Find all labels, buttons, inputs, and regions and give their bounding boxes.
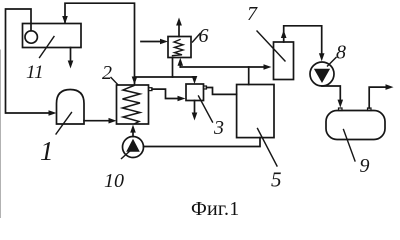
wire: heat exchanger 2 outlet to valve 3: [152, 89, 178, 98]
arrowhead into column 7 left: [264, 64, 272, 70]
distribution bus y77 from exchanger riser to valve 3: [135, 77, 195, 79]
arrowhead into heat exchanger 2 left: [109, 118, 117, 124]
slash leader of label 11: [40, 37, 55, 58]
svg-text:Фиг.1: Фиг.1: [191, 198, 239, 218]
slash leader of label 1: [56, 113, 72, 135]
wire: top bus from heat exchanger 2 to apparatus 11: [65, 3, 135, 84]
wire: bus drop into column 5 top: [248, 67, 250, 85]
heat exchanger 2 body: [117, 85, 149, 124]
vent arrow up from condenser 6: [178, 24, 180, 37]
slash leader of label 9: [344, 130, 356, 162]
wire: separator 1 to heat exchanger 2: [84, 120, 111, 122]
wire: pump 8 to vessel 9: [322, 86, 340, 101]
slash leader of label 2: [111, 78, 118, 85]
circle inside apparatus 11: [25, 31, 37, 43]
vessel 9 body: [326, 111, 385, 140]
apparatus 11 body: [23, 24, 82, 48]
svg-text:2: 2: [102, 62, 112, 84]
inlet nub of vessel 9: [339, 108, 343, 111]
arrowhead up above column 7: [281, 30, 287, 38]
slash leader of label 8: [328, 58, 337, 67]
svg-text:7: 7: [247, 3, 258, 25]
svg-text:3: 3: [213, 117, 224, 139]
wire: bus up into condenser 6 bottom: [179, 63, 181, 67]
arrowhead down into heat exchanger 2 top: [132, 77, 138, 85]
svg-text:8: 8: [336, 42, 346, 64]
slash leader of label 7: [257, 31, 285, 61]
slash leader of label 6: [193, 34, 201, 43]
svg-text:11: 11: [26, 62, 44, 83]
vent arrow from apparatus 11 bottom: [70, 48, 72, 63]
wire: column 7 top to pump 8: [284, 26, 322, 55]
arrowhead into separator 1 left: [49, 110, 57, 116]
svg-text:10: 10: [104, 170, 124, 192]
vapour bus y67 from column 5 to condenser 6 and column 7: [180, 66, 266, 68]
separator 1 dome body: [57, 90, 85, 125]
wire: pump 10 up into heat exchanger 2: [132, 130, 134, 137]
slash leader of label 10: [122, 151, 131, 159]
drain arrow from valve 3 bottom: [194, 101, 196, 116]
wire: condenser 6 bottom-left drop to distribution bus: [172, 58, 174, 78]
svg-text:6: 6: [199, 25, 209, 47]
outlet nub of valve 3: [204, 86, 207, 89]
feed arrow into condenser 6 left: [141, 41, 162, 43]
pump 10 impeller triangle: [126, 139, 140, 152]
pump 10 circle: [123, 137, 144, 158]
column 7 body: [274, 42, 294, 80]
coil of condenser 6: [173, 40, 184, 56]
outlet nub of vessel 9: [368, 108, 372, 111]
valve 3 body: [186, 84, 204, 101]
svg-text:9: 9: [360, 155, 370, 177]
arrowhead down into valve 3 top: [192, 76, 198, 84]
condenser 6 body: [168, 37, 191, 58]
arrowhead down into pump 8 top: [319, 53, 325, 61]
slash leader of label 5: [258, 129, 278, 167]
pump 8 circle: [310, 62, 334, 86]
wire: valve 3 to column 5 left: [207, 88, 237, 95]
svg-text:5: 5: [271, 168, 282, 192]
wire: vessel 9 outlet up and right: [369, 87, 388, 108]
outlet nub of heat exchanger 2: [149, 88, 153, 91]
slash leader of label 3: [199, 96, 213, 122]
pump 8 impeller triangle: [314, 69, 330, 83]
wire: pump 10 suction from column 5 bottom: [144, 138, 261, 147]
column 5 body: [237, 85, 274, 138]
svg-text:1: 1: [40, 136, 54, 166]
wire: circle of apparatus 11 up, left edge down to separator 1: [6, 9, 52, 113]
arrowhead down into apparatus 11 top: [62, 16, 68, 24]
coil of heat exchanger 2: [123, 86, 141, 124]
